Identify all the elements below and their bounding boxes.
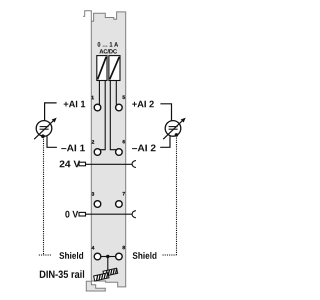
- 0V blade contact: [79, 212, 86, 216]
- pin number 2: [92, 140, 94, 143]
- pin 7: [116, 201, 123, 208]
- measuring shunt box channel 2: [109, 56, 120, 81]
- wire box2 left to pin 6: [110, 80, 116, 150]
- pin number 6: [123, 140, 125, 143]
- rail contact hatched pad: [94, 268, 118, 281]
- wire CH1 minus: [47, 136, 57, 147]
- wire CH2 minus: [160, 136, 170, 148]
- shield dotted line CH1: [43, 139, 45, 255]
- 24V blade contact: [79, 162, 86, 166]
- pin 6: [116, 149, 123, 156]
- shield dotted line CH2: [176, 138, 178, 256]
- label 24V: [60, 161, 81, 168]
- 24V power rail line: [86, 163, 133, 165]
- wire shield bus to rail contact: [107, 257, 109, 275]
- label Shield left: [59, 252, 83, 259]
- label AC/DC: [99, 49, 117, 53]
- release latch hook: [83, 11, 91, 21]
- label Shield right: [133, 252, 157, 259]
- wire box2 right to pin 5: [115, 80, 117, 104]
- label DIN-35 rail: [40, 270, 84, 278]
- wire CH1 plus: [45, 103, 57, 121]
- wire box1 left to pin 1: [98, 80, 100, 104]
- pin number 5: [123, 96, 126, 99]
- label 0...1A: [98, 42, 119, 47]
- pin number 3: [92, 192, 94, 196]
- label 0V: [65, 211, 78, 218]
- wire CH2 plus: [160, 104, 171, 121]
- wire box1 right to pin 2: [100, 80, 105, 150]
- 0V spring contact: [132, 211, 136, 218]
- pin 4: [94, 253, 101, 260]
- current source CH2 arrow: [163, 120, 183, 140]
- shield bus wire pins 4-8: [101, 256, 116, 258]
- current source CH1 bars: [40, 126, 49, 128]
- label +AI 1: [64, 101, 85, 108]
- 24V spring contact: [132, 160, 136, 167]
- label -AI 2: [132, 145, 156, 152]
- current source CH1 circle: [36, 121, 52, 137]
- current source CH2 circle: [165, 121, 181, 137]
- shield bus junction: [106, 255, 109, 258]
- current source CH2 bars: [169, 126, 178, 128]
- pin number 8: [123, 246, 125, 249]
- 0V power rail line: [86, 213, 133, 215]
- current source CH2 shield junction: [175, 133, 179, 137]
- label +AI 2: [132, 101, 154, 108]
- pin 5: [116, 104, 123, 111]
- pin 1: [94, 104, 101, 111]
- pin number 7: [123, 192, 125, 195]
- measuring shunt box channel 1: [97, 56, 107, 81]
- current source CH1 arrow: [34, 120, 54, 140]
- current source CH1 shield junction: [41, 134, 45, 138]
- label -AI 1: [61, 145, 85, 152]
- pin number 4: [92, 246, 95, 249]
- pin 8: [116, 253, 123, 260]
- DIN rail foot profile: [86, 281, 105, 291]
- pin 3: [94, 201, 101, 208]
- pin number 1: [92, 96, 94, 99]
- pin 2: [94, 149, 101, 156]
- module body: [91, 12, 125, 287]
